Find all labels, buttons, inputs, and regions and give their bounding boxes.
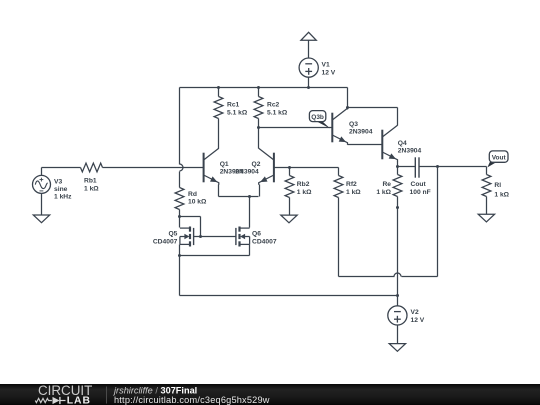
svg-text:12 V: 12 V — [411, 317, 425, 324]
resistor Rb1 — [81, 163, 103, 172]
wire Re to V2 — [397, 208, 399, 296]
svg-text:Rd: Rd — [188, 191, 197, 198]
wire hop over V2 wire — [394, 273, 401, 277]
ground Rl — [478, 214, 494, 222]
wire left drop — [179, 256, 181, 296]
svg-text:Q3b: Q3b — [311, 114, 324, 121]
wire — [258, 119, 260, 128]
wire — [397, 326, 399, 344]
label Rf2 — [346, 181, 361, 196]
resistor Re — [393, 175, 402, 197]
svg-text:Q6: Q6 — [252, 230, 261, 237]
svg-text:10 kΩ: 10 kΩ — [188, 199, 207, 206]
logo CIRCUIT — [38, 383, 92, 398]
logo diode symbol — [53, 397, 66, 404]
VCC symbol — [301, 32, 316, 40]
svg-text:Q2: Q2 — [252, 161, 261, 168]
label Re — [376, 181, 391, 196]
label Rb1 — [84, 178, 99, 193]
wire feedback run right — [402, 276, 438, 278]
resistor Rl — [482, 175, 491, 197]
node Re bottom — [396, 206, 399, 209]
label Rb2 — [297, 181, 312, 196]
svg-text:V1: V1 — [322, 62, 330, 69]
wire — [486, 167, 488, 175]
url text — [114, 395, 270, 405]
annotation Vout — [487, 151, 508, 168]
ground V2 — [389, 344, 405, 352]
capacitor Cout — [415, 157, 419, 177]
wire left vertical lower — [179, 172, 181, 188]
svg-text:Re: Re — [382, 181, 391, 188]
wire — [397, 167, 399, 175]
svg-text:Rc2: Rc2 — [267, 102, 280, 109]
transistor Q5 — [180, 227, 194, 247]
svg-text:Rf2: Rf2 — [346, 181, 357, 188]
wire hop over input — [180, 164, 184, 171]
svg-text:1 kHz: 1 kHz — [54, 194, 72, 201]
label Cout — [410, 181, 431, 196]
wire — [308, 78, 310, 88]
node Q4 emitter junction — [396, 165, 399, 168]
svg-text:http://circuitlab.com/c3eq6g5h: http://circuitlab.com/c3eq6g5hx529w — [114, 395, 270, 405]
resistor Rc1 — [214, 97, 223, 119]
wire — [420, 166, 438, 168]
svg-text:2N3904: 2N3904 — [349, 129, 373, 136]
wire Q3 emitter to Q4 base — [348, 144, 383, 146]
wire Q2 emitter — [259, 185, 261, 197]
svg-text:1 kΩ: 1 kΩ — [84, 186, 99, 193]
wire rail down to Q3 collector — [347, 88, 349, 110]
wire Q6 drain up — [249, 197, 251, 228]
node Rc2 top — [257, 86, 260, 89]
svg-text:1 kΩ: 1 kΩ — [297, 189, 312, 196]
wire source rail — [180, 255, 250, 257]
label Rd — [188, 191, 207, 206]
wire — [398, 166, 416, 168]
voltage source V1 — [299, 58, 318, 77]
label Rc1 — [227, 102, 248, 117]
label Q4 — [398, 140, 422, 155]
svg-text:Q3: Q3 — [349, 121, 358, 128]
ground V3 — [33, 215, 49, 223]
svg-text:1 kΩ: 1 kΩ — [376, 189, 391, 196]
annotation Q3b — [309, 111, 330, 129]
node emitter junction — [248, 195, 251, 198]
label Q6 — [252, 230, 277, 245]
separator — [106, 387, 108, 404]
svg-text:jrshircliffe / 307Final: jrshircliffe / 307Final — [112, 385, 197, 395]
wire emitter rail — [219, 196, 259, 198]
wire — [338, 168, 340, 176]
wire — [397, 296, 399, 306]
node Rb2 top — [288, 166, 291, 169]
wire — [289, 168, 291, 176]
svg-text:12 V: 12 V — [322, 70, 336, 77]
svg-text:CD4007: CD4007 — [153, 238, 178, 245]
node Rd bottom — [178, 215, 181, 218]
node source rail junction — [178, 254, 181, 257]
node Rc2 bottom — [257, 126, 260, 129]
svg-text:5.1 kΩ: 5.1 kΩ — [267, 110, 288, 117]
svg-text:V3: V3 — [54, 178, 62, 185]
resistor Rc2 — [254, 97, 263, 119]
wire feedback run left — [339, 276, 395, 278]
voltage source V2 — [388, 306, 407, 325]
node Q3 collector junction — [346, 106, 349, 109]
wire — [258, 128, 260, 149]
wire top rail — [180, 87, 348, 89]
label Rc2 — [267, 102, 288, 117]
svg-text:LAB: LAB — [67, 396, 91, 405]
wire — [218, 119, 220, 149]
svg-text:Q4: Q4 — [398, 140, 407, 147]
wire Q1 emitter — [218, 185, 220, 197]
svg-text:Rb2: Rb2 — [297, 181, 310, 188]
label Rl — [494, 182, 509, 198]
label Q5 — [153, 230, 178, 245]
wire Q5 drain up — [179, 217, 181, 228]
svg-text:Q1: Q1 — [220, 161, 229, 168]
wire Q5 source down — [179, 245, 181, 256]
svg-text:CD4007: CD4007 — [252, 238, 277, 245]
svg-text:Rc1: Rc1 — [227, 102, 240, 109]
svg-text:sine: sine — [54, 186, 68, 193]
wire collector link — [348, 108, 398, 126]
wire — [218, 88, 220, 97]
wire — [258, 88, 260, 97]
wire gate link — [194, 236, 236, 238]
wire Q2 base — [275, 167, 339, 169]
transistor Q3 — [332, 108, 347, 144]
label Q1 — [220, 161, 244, 176]
svg-text:Rb1: Rb1 — [84, 178, 97, 185]
wire Rd to gates — [180, 217, 201, 237]
svg-text:5.1 kΩ: 5.1 kΩ — [227, 110, 248, 117]
wire feedback drop — [437, 167, 439, 277]
transistor Q4 — [382, 125, 397, 161]
wire — [397, 197, 399, 208]
svg-text:100 nF: 100 nF — [410, 189, 431, 196]
wire input to Q1 base — [103, 167, 204, 169]
svg-text:2N3904: 2N3904 — [398, 148, 422, 155]
transistor Q1 — [204, 148, 219, 184]
transistor Q2 — [259, 148, 274, 184]
node V2 top junction — [396, 294, 399, 297]
voltage source V3 sine — [33, 175, 51, 193]
wire Q4 emitter — [397, 162, 399, 167]
svg-text:1 kΩ: 1 kΩ — [346, 189, 361, 196]
node Vout junction — [436, 165, 439, 168]
logo LAB — [67, 396, 91, 405]
node V1-rail junction — [307, 86, 310, 89]
wire — [42, 168, 81, 176]
wire — [486, 197, 488, 215]
resistor Rd — [175, 188, 184, 210]
wire — [308, 41, 310, 59]
svg-text:2N3904: 2N3904 — [235, 169, 259, 176]
ground Rb2 — [281, 215, 297, 223]
wire left vertical upper — [179, 88, 181, 165]
wire Rc2 to Q3 base — [259, 127, 333, 129]
label Q3 — [349, 121, 373, 136]
wire Q6 source down — [249, 245, 251, 256]
svg-text:Cout: Cout — [411, 181, 427, 188]
wire — [41, 194, 43, 216]
title text — [112, 385, 197, 395]
logo resistor symbol — [35, 398, 52, 402]
svg-text:Q5: Q5 — [168, 230, 177, 237]
label V3 — [54, 178, 72, 200]
node Rc1 top — [217, 86, 220, 89]
wire — [179, 210, 181, 217]
svg-text:Rl: Rl — [494, 182, 501, 189]
svg-text:Vout: Vout — [492, 154, 507, 161]
resistor Rb2 — [285, 176, 294, 198]
wire feedback up to Rf2 — [338, 198, 340, 277]
node gate junction — [199, 235, 202, 238]
label V2 — [411, 309, 425, 324]
wire Vout run — [438, 166, 487, 168]
svg-text:V2: V2 — [411, 309, 419, 316]
resistor Rf2 — [334, 176, 343, 198]
label Q2 — [235, 161, 260, 176]
transistor Q6 — [236, 227, 250, 247]
wire — [289, 198, 291, 216]
wire bottom run — [180, 295, 398, 297]
label V1 — [322, 62, 336, 77]
svg-text:1 kΩ: 1 kΩ — [494, 191, 509, 198]
